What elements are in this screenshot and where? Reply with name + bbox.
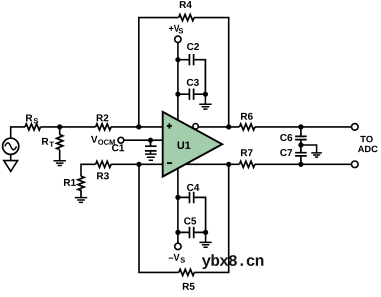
terminal VOCM <box>118 137 124 143</box>
label R2 <box>97 114 109 121</box>
wire: +VS supply rail <box>177 43 179 120</box>
junction dot C5 <box>175 230 180 235</box>
capacitor C2 <box>178 54 206 94</box>
minus sign U1 <box>167 162 172 164</box>
junction dot C2 <box>175 57 180 62</box>
wire: R1 corner to R3 to - input <box>81 164 163 176</box>
label R5 <box>183 283 195 290</box>
resistor R1 <box>78 176 84 197</box>
junction dot R6 line <box>226 124 231 129</box>
label R7 <box>241 149 253 156</box>
label C7 <box>280 149 292 156</box>
label C5 <box>184 217 196 224</box>
junction dot C1 <box>148 138 153 143</box>
label +VS <box>169 25 183 34</box>
junction dot C6 top <box>298 124 303 129</box>
junction dot R7 line <box>226 162 231 167</box>
label R3 <box>97 172 109 179</box>
resistor R5 <box>179 269 195 275</box>
output bubble U1 <box>193 124 198 129</box>
label C2 <box>187 43 199 50</box>
label C3 <box>187 79 199 86</box>
node C junction dot (feedback tap -) <box>136 162 141 167</box>
label U1 <box>178 141 191 149</box>
wire: amp to R7 <box>186 163 352 165</box>
capacitor C1 <box>145 140 157 151</box>
source V1 sine generator <box>3 138 19 154</box>
capacitor C3 <box>178 89 206 100</box>
label R1 <box>64 179 76 186</box>
wire: bubble to R6 <box>198 126 351 128</box>
label VOCM <box>91 136 115 145</box>
label C6 <box>280 134 292 141</box>
capacitor C7 <box>295 145 307 164</box>
terminal -VS <box>175 243 181 249</box>
ground (C1) <box>145 151 157 160</box>
capacitor C5 <box>178 227 206 238</box>
resistor R2 <box>96 124 112 130</box>
watermark ybx8.cn <box>202 254 264 269</box>
label C4 <box>187 184 199 191</box>
resistor RS <box>25 124 41 130</box>
wire: source to ground triangle <box>10 154 12 160</box>
resistor RT <box>59 127 61 161</box>
ground (C5) <box>199 232 211 247</box>
label R6 <box>241 113 253 120</box>
ground (C3) <box>199 94 211 109</box>
resistor R6 <box>239 124 255 130</box>
label RS <box>26 115 38 124</box>
junction dot C5 right <box>203 230 208 235</box>
wire: top feedback loop with R4 <box>139 18 229 127</box>
label C1 <box>112 144 124 151</box>
junction dot C3 <box>175 92 180 97</box>
label -VS <box>169 254 185 263</box>
ground (output mid node) <box>301 145 322 157</box>
label RT <box>42 138 54 147</box>
op-amp U1 <box>163 112 223 177</box>
capacitor C6 <box>295 127 307 145</box>
ground (source, triangle style) <box>4 161 18 172</box>
label TO ADC <box>358 136 378 152</box>
plus sign U1 <box>167 123 172 128</box>
junction dot C7 bottom <box>298 162 303 167</box>
node B junction dot (feedback tap +) <box>136 124 141 129</box>
resistor R3 <box>96 161 112 167</box>
junction dot C3 right <box>203 92 208 97</box>
wire: bottom feedback loop with R5 <box>139 164 229 272</box>
wire: source to Rs to node A <box>11 127 163 138</box>
junction dot C6/C7 mid <box>298 142 303 147</box>
terminal OUT+ <box>352 124 359 131</box>
terminal OUT- <box>352 161 359 168</box>
capacitor C4 <box>178 192 206 233</box>
junction dot C4 <box>175 195 180 200</box>
wire: -VS supply rail <box>177 169 179 244</box>
node A junction dot <box>57 124 62 129</box>
terminal +VS <box>175 36 181 42</box>
ground (RT) <box>54 161 66 166</box>
ground (R1) <box>75 198 87 203</box>
wire: VOCM to amp <box>124 139 163 141</box>
label R4 <box>180 1 192 8</box>
resistor R7 <box>239 161 255 167</box>
resistor R4 <box>179 15 195 21</box>
